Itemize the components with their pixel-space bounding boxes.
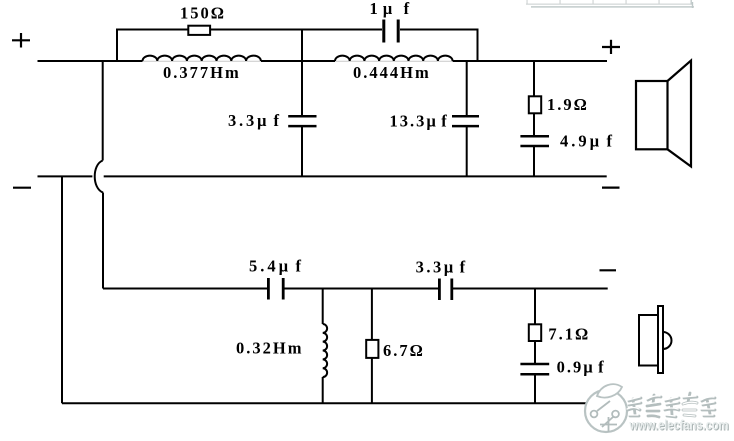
- svg-text:1µ f: 1µ f: [370, 0, 415, 18]
- capacitor C1 1µf: [382, 20, 399, 43]
- svg-text:5.4µ f: 5.4µ f: [249, 257, 304, 276]
- capacitor C7 0.9µf plates: [520, 364, 549, 374]
- terminal + left: [12, 33, 30, 48]
- wire R2/C4 branch vertical: [533, 61, 535, 176]
- svg-text:0.9µ f: 0.9µ f: [557, 358, 606, 377]
- terminal - right (bottom circuit): [600, 269, 617, 271]
- wire: top rail (+): [38, 60, 608, 62]
- wire: bottom rail (-) top circuit: [38, 175, 607, 177]
- faint wire under inductors: [143, 60, 453, 62]
- svg-text:150Ω: 150Ω: [180, 4, 226, 23]
- capacitor C6 3.3µf: [438, 279, 453, 301]
- tweeter speaker: [639, 306, 672, 373]
- svg-text:4.9µ f: 4.9µ f: [560, 132, 615, 151]
- capacitor C4 4.9µf plates: [520, 136, 549, 146]
- resistor R4 7.1Ω body: [529, 324, 541, 341]
- watermark (decorative): [585, 384, 730, 433]
- svg-text:7.1Ω: 7.1Ω: [548, 325, 590, 344]
- wire: resistor/cap branch rail: [117, 29, 478, 62]
- wire: lower circuit bottom rail: [62, 402, 590, 404]
- svg-text:0.32Hm: 0.32Hm: [236, 339, 303, 358]
- capacitor C3 13.3µf plates: [452, 116, 479, 126]
- wire node A vertical (rail to bottom): [301, 29, 303, 177]
- wire: left vertical to lower circuit ground: [61, 176, 63, 403]
- svg-text:0.444Hm: 0.444Hm: [353, 63, 431, 82]
- svg-text:13.3µ f: 13.3µ f: [390, 112, 449, 131]
- inductor L3 0.32Hm coil: [323, 324, 327, 377]
- wire L3 branch vertical: [322, 289, 324, 404]
- svg-text:6.7Ω: 6.7Ω: [383, 341, 425, 360]
- wire R3 branch vertical: [371, 289, 373, 404]
- inductor L2 0.444Hm: [335, 56, 453, 61]
- inductor L1 0.377Hm: [143, 56, 261, 61]
- terminal + right: [602, 40, 620, 54]
- svg-text:3.3µ f: 3.3µ f: [416, 258, 468, 277]
- woofer speaker: [636, 61, 691, 167]
- svg-text:1.9Ω: 1.9Ω: [547, 95, 589, 114]
- resistor R3 6.7Ω body: [366, 340, 378, 358]
- svg-text:www.elecfans.com: www.elecfans.com: [629, 418, 729, 433]
- svg-text:0.377Hm: 0.377Hm: [163, 63, 241, 82]
- resistor R1 150Ω: [188, 26, 210, 35]
- wire: lower circuit top rail: [103, 288, 608, 290]
- resistor R2 1.9Ω body: [529, 96, 541, 113]
- terminal - right (top circuit): [602, 187, 620, 189]
- wire R4/C7 branch vertical: [534, 289, 536, 404]
- capacitor C2 3.3µf plates: [288, 116, 316, 126]
- svg-text:3.3µ f: 3.3µ f: [228, 111, 282, 130]
- terminal - left: [13, 187, 31, 189]
- wire 13.3µf branch vertical: [466, 61, 468, 176]
- capacitor C5 5.4µf: [267, 278, 285, 300]
- background table fragment (decorative): [526, 0, 694, 8]
- wire: crossover hop (top + to lower circuit): [95, 61, 103, 289]
